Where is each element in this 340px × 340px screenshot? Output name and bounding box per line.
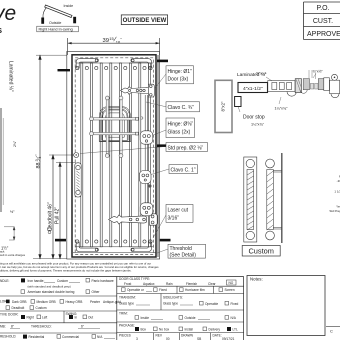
cut mark right top bbox=[157, 60, 168, 63]
dim pull 42 line bbox=[56, 162, 76, 258]
small circles on dim line bbox=[48, 227, 52, 234]
svg-text:Inside: Inside bbox=[64, 4, 74, 8]
jamb outer frame bbox=[67, 52, 160, 260]
svg-text:Medium ORB: Medium ORB bbox=[37, 300, 56, 304]
threshold row bbox=[0, 335, 115, 340]
svg-text:88: 88 bbox=[36, 163, 42, 169]
svg-text:RESHOLD:: RESHOLD: bbox=[0, 335, 16, 339]
svg-text:8”: 8” bbox=[11, 325, 14, 329]
svg-text:6”: 6” bbox=[81, 325, 84, 329]
svg-text:Yes: Yes bbox=[336, 205, 340, 209]
right edge tiny spec text bbox=[329, 175, 340, 214]
svg-text:Right: Right bbox=[27, 316, 35, 320]
svg-text:¾”x½”: ¾”x½” bbox=[313, 70, 324, 74]
svg-text:Clavo C. ¾”: Clavo C. ¾” bbox=[168, 105, 195, 111]
svg-text:Pull 42”: Pull 42” bbox=[55, 207, 61, 224]
dark dot on stile bbox=[148, 184, 151, 187]
svg-text:Left: Left bbox=[42, 316, 47, 320]
svg-text:No box: No box bbox=[159, 328, 170, 332]
svg-text:ditions, delivery,gift and for: ditions, delivery,gift and forms of paym… bbox=[0, 269, 132, 273]
top-left scroll bbox=[76, 59, 99, 70]
svg-text:C: C bbox=[330, 329, 333, 334]
form outer top line bbox=[0, 276, 244, 278]
svg-text:2⅛”: 2⅛” bbox=[13, 140, 17, 147]
section astragal profiles bbox=[300, 79, 324, 94]
callout hinge glass bbox=[154, 118, 195, 138]
svg-text:Residential: Residential bbox=[29, 335, 45, 339]
svg-text:Clear: Clear bbox=[208, 282, 217, 286]
bottom rail line bbox=[75, 246, 153, 248]
door leaf bbox=[72, 55, 156, 257]
svg-text:8”x2”: 8”x2” bbox=[221, 101, 226, 112]
disclaimer fragment above bbox=[0, 250, 26, 258]
svg-text:Std prep. Ø2 ⅛”: Std prep. Ø2 ⅛” bbox=[168, 145, 204, 151]
svg-text:PIECES: PIECES bbox=[119, 334, 131, 338]
svg-text:Custom: Custom bbox=[57, 279, 68, 283]
svg-text:Other: Other bbox=[92, 290, 101, 294]
svg-text:NO: NO bbox=[229, 281, 234, 285]
small clavo upper right bbox=[141, 117, 143, 119]
svg-text:Heavy ORB: Heavy ORB bbox=[66, 300, 83, 304]
pull handle bbox=[75, 163, 81, 197]
svg-text:½”: ½” bbox=[10, 210, 15, 214]
section hinge pin circle bbox=[332, 74, 338, 80]
grille horizontal bar upper bbox=[90, 117, 139, 121]
svg-text:Iron handle:: Iron handle: bbox=[28, 279, 45, 283]
svg-text:N/A: N/A bbox=[231, 316, 237, 320]
cut mark left bottom bbox=[55, 239, 66, 242]
transom sidelights block bbox=[117, 294, 244, 311]
svg-text:Laser cut: Laser cut bbox=[168, 208, 189, 214]
door stop label bbox=[243, 114, 265, 126]
bottom clavos row bbox=[85, 240, 146, 243]
cut mark left top bbox=[58, 69, 71, 71]
section tube 4x1-1/2 bbox=[238, 83, 268, 93]
svg-text:Outside: Outside bbox=[185, 316, 196, 320]
svg-text:LTL: LTL bbox=[233, 328, 238, 332]
bottom strap hinge bbox=[109, 214, 158, 225]
section label laminated bbox=[237, 72, 272, 81]
twisted bar side view bbox=[266, 153, 282, 243]
swing diagram left jamb post bbox=[41, 18, 44, 24]
section jamb right bbox=[324, 78, 340, 98]
svg-text:Operable: Operable bbox=[205, 302, 218, 306]
svg-text:Glass type: Glass type bbox=[163, 302, 178, 306]
disclaimer paragraph bbox=[0, 262, 159, 273]
svg-text:P.O.: P.O. bbox=[316, 5, 329, 12]
svg-text:Notes:: Notes: bbox=[250, 277, 263, 282]
svg-text:In: In bbox=[75, 316, 78, 320]
P.O. CUST. APPROVED table bbox=[304, 2, 340, 40]
callout clavo 1 bbox=[151, 165, 198, 175]
svg-text:(with standard and deadbolt pr: (with standard and deadbolt prep) bbox=[28, 285, 71, 289]
signature line bottom right bbox=[326, 327, 340, 334]
svg-text:Custom: Custom bbox=[36, 306, 47, 310]
svg-text:N/A: N/A bbox=[97, 335, 103, 339]
far-left section edge bbox=[0, 108, 2, 212]
vertical bars bbox=[81, 63, 151, 247]
dim 88 3/4 vertical line bbox=[33, 55, 67, 259]
svg-text:REV: REV bbox=[156, 334, 163, 338]
swing label box Right Hand In-swing bbox=[37, 26, 79, 32]
door inner dashed line bbox=[75, 58, 153, 255]
cut mark right bottom (threshold) bbox=[160, 239, 171, 242]
grille nested arches bbox=[99, 107, 130, 142]
door hinge-side edge line bbox=[157, 55, 159, 257]
deadbolt circle bbox=[74, 153, 79, 158]
svg-text:1¼”x¾”: 1¼”x¾” bbox=[275, 107, 289, 111]
svg-text:Fixed: Fixed bbox=[231, 302, 239, 306]
svg-text:Hurricane film: Hurricane film bbox=[185, 288, 205, 292]
grille vertical bar left bbox=[105, 96, 109, 157]
swing diagram arc bbox=[43, 8, 47, 18]
svg-text:APPROVED: APPROVED bbox=[307, 31, 340, 38]
svg-text:Glass (2x): Glass (2x) bbox=[168, 129, 191, 135]
callout std prep bbox=[80, 143, 208, 154]
callout threshold bbox=[157, 244, 206, 258]
svg-text:American standard double borin: American standard double boring bbox=[28, 290, 75, 294]
svg-text:15: 15 bbox=[109, 36, 114, 41]
jamb threshold row bbox=[0, 325, 100, 329]
svg-text:sult in extra charges: sult in extra charges bbox=[0, 253, 26, 257]
grille horizontal bar lower bbox=[90, 132, 139, 136]
OUTSIDE VIEW title box bbox=[121, 15, 167, 25]
logo script (cut at left edge) bbox=[0, 2, 16, 35]
svg-text:Threshold: Threshold bbox=[170, 246, 192, 252]
top strap hinge bbox=[121, 84, 155, 97]
svg-text:Hinge: Ø1”: Hinge: Ø1” bbox=[168, 69, 193, 75]
section door core profiles bbox=[268, 81, 297, 97]
svg-text:CUST.: CUST. bbox=[313, 18, 333, 25]
grille vertical bar right bbox=[119, 96, 123, 157]
svg-text:Out: Out bbox=[88, 316, 93, 320]
svg-text:Dark ORB: Dark ORB bbox=[12, 300, 27, 304]
glass type header bbox=[117, 277, 244, 286]
package block bbox=[117, 323, 244, 332]
section dim 1-1/4x3/4 mid bbox=[275, 97, 289, 111]
svg-text:Outside: Outside bbox=[49, 21, 61, 25]
svg-text:Screen: Screen bbox=[225, 288, 235, 292]
left row lines bbox=[0, 296, 117, 333]
glass hinge plate 2 bbox=[140, 203, 153, 216]
section tick dims above astragal bbox=[309, 70, 316, 79]
svg-text:⅝”x¼”: ⅝”x¼” bbox=[256, 72, 267, 76]
notes box bbox=[247, 276, 325, 336]
top clavos row bbox=[85, 66, 146, 69]
svg-text:Pewter: Pewter bbox=[90, 300, 101, 304]
callout clavo 3/4 bbox=[146, 102, 200, 112]
svg-text:Inside: Inside bbox=[141, 316, 150, 320]
svg-text:Install: Install bbox=[185, 328, 194, 332]
color row bbox=[0, 300, 121, 311]
top dimension 39 15/16 bbox=[68, 36, 160, 55]
swing diagram right jamb post bbox=[73, 17, 76, 24]
svg-text:Clavo C. 1”: Clavo C. 1” bbox=[171, 167, 196, 173]
svg-text:(See Detail): (See Detail) bbox=[170, 253, 197, 259]
bottom-left scroll bbox=[76, 240, 99, 252]
form vertical divider left/mid bbox=[116, 277, 118, 340]
top rail line bbox=[75, 62, 153, 64]
svg-text:Rain: Rain bbox=[166, 282, 173, 286]
svg-text:Frost: Frost bbox=[124, 282, 131, 286]
svg-text:Fixed: Fixed bbox=[159, 288, 167, 292]
svg-text:”: ” bbox=[34, 154, 39, 156]
svg-text:TRANSOM:: TRANSOM: bbox=[119, 296, 136, 300]
svg-text:DRAWN: DRAWN bbox=[181, 334, 194, 338]
swing diagram door leaf bbox=[45, 5, 72, 17]
glass panel frame bar (right stile) bbox=[145, 95, 147, 212]
svg-text:DATE:: DATE: bbox=[213, 334, 222, 338]
svg-text:3/16”: 3/16” bbox=[168, 215, 180, 221]
section dim 3/4x1/2 bbox=[313, 70, 324, 79]
active door row bbox=[0, 311, 93, 323]
dim deadbolt 46 line bbox=[49, 155, 74, 259]
svg-text:THRESHOLD:: THRESHOLD: bbox=[31, 325, 52, 329]
handle row bbox=[0, 278, 114, 294]
svg-text:ve: ve bbox=[0, 2, 16, 25]
6x2 jamb profile rect bbox=[215, 80, 232, 132]
door stop profile bbox=[235, 97, 241, 113]
pieces row bbox=[119, 333, 235, 340]
svg-text:Custom: Custom bbox=[248, 247, 273, 256]
svg-text:OUTSIDE VIEW: OUTSIDE VIEW bbox=[123, 18, 167, 24]
svg-text:Deadbolt: Deadbolt bbox=[12, 306, 25, 310]
svg-text:Door stop: Door stop bbox=[243, 114, 265, 120]
svg-text:Door (3x): Door (3x) bbox=[168, 76, 189, 82]
callout hinge door bbox=[155, 66, 194, 88]
glass option row bbox=[117, 286, 244, 293]
svg-text:Flemish: Flemish bbox=[186, 282, 197, 286]
svg-text:Deadbolt 46”: Deadbolt 46” bbox=[48, 202, 54, 231]
dim 88 3/4 text bbox=[34, 154, 42, 169]
svg-text:1¼”x¾”: 1¼”x¾” bbox=[251, 123, 265, 127]
svg-text:MB:: MB: bbox=[0, 325, 6, 329]
svg-text:Panic hardware: Panic hardware bbox=[92, 279, 114, 283]
cut mark right mid (std prep) bbox=[157, 144, 167, 147]
svg-text:Operable or: Operable or bbox=[127, 288, 145, 292]
svg-text:PACKAGE:: PACKAGE: bbox=[119, 323, 135, 327]
bottom-right scroll bbox=[131, 240, 152, 252]
svg-text:Glass type: Glass type bbox=[119, 302, 134, 306]
svg-text:Delivery: Delivery bbox=[209, 328, 221, 332]
svg-text:Box: Box bbox=[141, 328, 147, 332]
svg-text:Laminated ⅛”: Laminated ⅛” bbox=[8, 61, 14, 92]
svg-text:-36: -36 bbox=[337, 179, 340, 183]
threshold line at door bottom bbox=[73, 252, 156, 254]
svg-text:4”x1-1/2”: 4”x1-1/2” bbox=[243, 86, 263, 92]
svg-text:Std Prep: Std Prep bbox=[329, 209, 340, 213]
custom label box bbox=[242, 246, 280, 257]
svg-text:S: S bbox=[0, 26, 2, 35]
svg-text:NDLE:: NDLE: bbox=[0, 279, 10, 283]
glass hinge plate 1 bbox=[140, 131, 153, 144]
svg-text:DOOR GLASS TYPE:: DOOR GLASS TYPE: bbox=[119, 277, 150, 281]
twisted bar front view bbox=[244, 157, 257, 242]
callout laser cut bbox=[153, 205, 193, 239]
section lock block bbox=[295, 79, 301, 93]
svg-text:1 1/2: 1 1/2 bbox=[334, 190, 340, 194]
svg-text:TRIM:: TRIM: bbox=[119, 312, 128, 316]
svg-text:TIVE DOOR:: TIVE DOOR: bbox=[0, 313, 19, 317]
svg-text:Commercial: Commercial bbox=[62, 335, 79, 339]
svg-text:Aqualux: Aqualux bbox=[143, 282, 155, 286]
top-right scroll bbox=[131, 59, 152, 70]
middle oval plate / clavo C1 bbox=[140, 171, 152, 184]
trim block bbox=[117, 312, 244, 323]
svg-text:39: 39 bbox=[103, 38, 109, 44]
svg-text:Hinge: Ø⅝”: Hinge: Ø⅝” bbox=[168, 121, 194, 127]
form right edge bbox=[243, 277, 245, 340]
svg-text:SIDELIGHTS:: SIDELIGHTS: bbox=[163, 296, 183, 300]
svg-text:”: ” bbox=[121, 36, 123, 41]
svg-text:Right Hand In-swing: Right Hand In-swing bbox=[39, 28, 73, 32]
